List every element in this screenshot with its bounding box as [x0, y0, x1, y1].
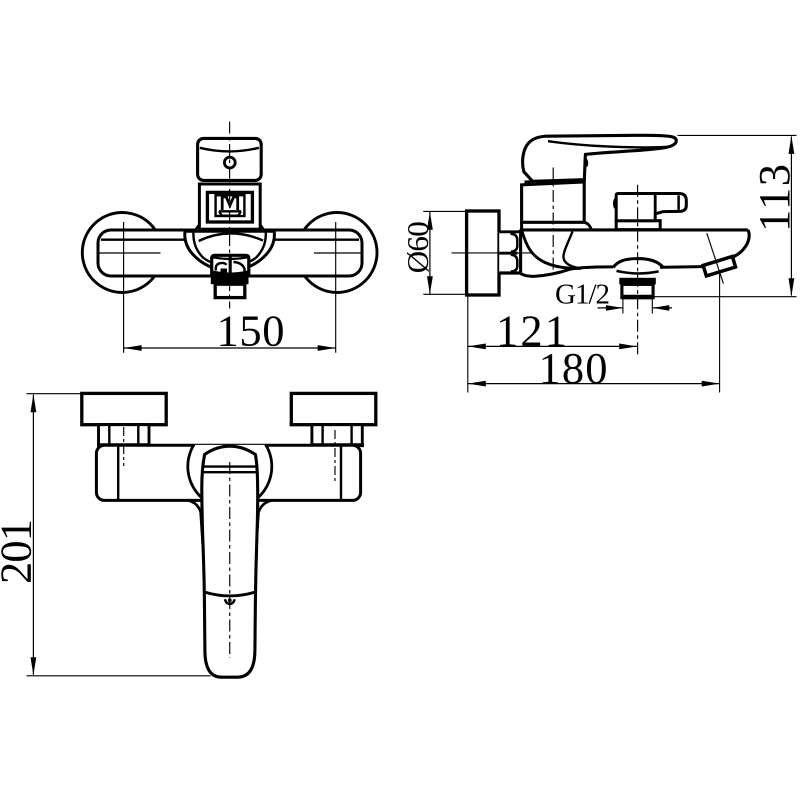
- svg-text:113: 113: [749, 164, 799, 232]
- handle cap: [198, 138, 262, 180]
- escutcheon plate inner: [216, 195, 245, 216]
- dimension 201: [0, 394, 211, 676]
- diverter base: [616, 221, 660, 230]
- aerator nozzle: [215, 284, 245, 297]
- escutcheon flare: [195, 225, 265, 231]
- svg-text:G1/2: G1/2: [555, 279, 610, 311]
- hex nut right: [310, 425, 364, 446]
- spout bell outer: [185, 231, 275, 270]
- aerator band: [211, 275, 249, 284]
- body bottom contour: [521, 267, 614, 276]
- extension lines 121 180: [468, 273, 720, 393]
- fillet left: [188, 500, 203, 545]
- diverter center line: [637, 185, 639, 355]
- flange plate left: [82, 393, 166, 424]
- cartridge center line: [552, 168, 554, 270]
- spout S-curve outer: [522, 231, 581, 269]
- dimension 113: [653, 135, 799, 296]
- center line front view: [229, 122, 231, 309]
- wall flange circle right: [297, 213, 377, 293]
- nut axis left: [123, 427, 125, 466]
- dimension D60: [400, 211, 467, 294]
- lever plan: [202, 446, 258, 677]
- logo M: [219, 197, 241, 216]
- axis line right circle: [314, 222, 363, 353]
- svg-text:180: 180: [539, 343, 608, 393]
- cartridge side: [522, 182, 592, 230]
- lever handle side: [523, 135, 677, 182]
- nut axis right: [334, 430, 336, 484]
- spout tip cap: [703, 256, 735, 275]
- escutcheon plate outer: [207, 192, 252, 222]
- shower outlet nozzle G1/2: [622, 284, 653, 297]
- body underside right: [660, 265, 703, 269]
- fillet right: [256, 500, 272, 545]
- wall flange side: [467, 211, 499, 295]
- flange plate right: [291, 393, 376, 424]
- axis line left circle: [97, 222, 161, 353]
- body left edge: [519, 230, 522, 275]
- shower outlet dome: [613, 259, 663, 274]
- handle cap indicator: [224, 157, 235, 168]
- body bar plan: [96, 445, 360, 500]
- shower outlet band: [619, 278, 656, 285]
- svg-text:Ø60: Ø60: [400, 221, 435, 273]
- aerator cup: [212, 255, 249, 274]
- svg-text:150: 150: [217, 306, 285, 356]
- spout bell inner: [193, 232, 265, 267]
- hex nut left: [97, 425, 151, 446]
- spout tip axis: [707, 233, 724, 283]
- svg-text:201: 201: [0, 519, 41, 584]
- cartridge escutcheon: [199, 184, 260, 229]
- wall flange circle left: [82, 213, 162, 293]
- cover nut: [499, 232, 520, 273]
- mixer body bar: [98, 230, 362, 276]
- spout tube arch: [199, 233, 263, 241]
- body top line: [520, 228, 748, 231]
- diverter knob: [613, 194, 686, 221]
- center line plan: [229, 462, 231, 658]
- spout S-curve inner: [563, 232, 580, 269]
- cartridge dome plan: [188, 425, 272, 509]
- dimension 121: [468, 305, 637, 355]
- dimension 180: [468, 343, 720, 393]
- flange axis side: [452, 252, 534, 254]
- spout nose: [730, 230, 750, 258]
- dimension 150: [124, 306, 336, 356]
- dimension G1/2: [555, 279, 672, 314]
